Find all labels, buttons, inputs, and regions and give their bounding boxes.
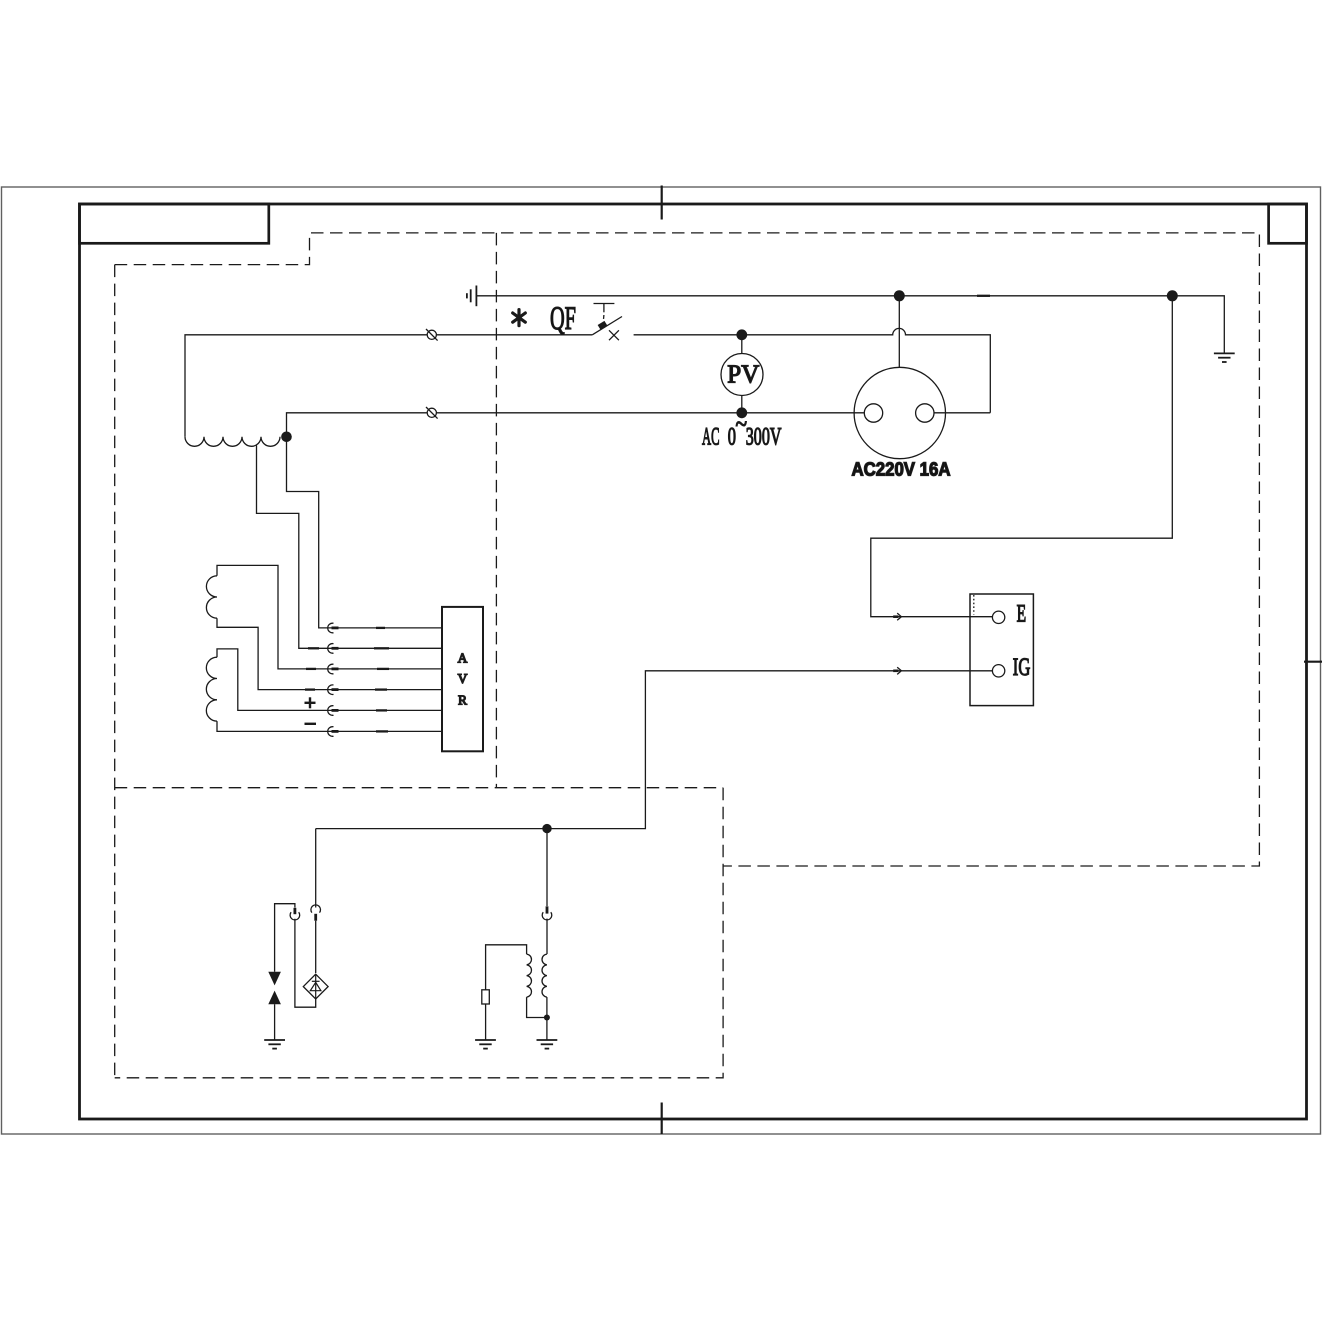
node: earth bus / socket earth pin junction xyxy=(894,290,905,301)
socket right pin xyxy=(916,404,934,422)
wire: junction down to ignition connector xyxy=(546,829,548,906)
IG wire arrow xyxy=(897,667,901,674)
E wire plug mark xyxy=(893,615,898,618)
socket AC220V 16A xyxy=(854,367,945,458)
wire: PV bottom lead xyxy=(741,396,743,413)
ignition coil secondary (left, 4 loops) xyxy=(527,954,532,997)
wire: stator tap to AVR pin2 xyxy=(257,446,443,649)
node: coil common junction xyxy=(544,1015,550,1021)
connector bullet on row 2 xyxy=(426,329,438,341)
label - polarity xyxy=(305,723,317,725)
wire colour mark on earth bus xyxy=(977,295,990,297)
wire: secondary bottom to common xyxy=(527,997,547,1017)
svg-text:R: R xyxy=(458,693,467,708)
wire: connector to diode diamond xyxy=(315,921,317,973)
wire: connector to primary coil xyxy=(546,919,548,955)
wire: row 2 right of breaker with hop over earth pin xyxy=(634,328,991,412)
AVR pin plugs xyxy=(332,628,339,732)
wire: PV top lead xyxy=(741,335,743,354)
wire: primary bottom to ground xyxy=(546,997,548,1039)
wire: IG terminal to engine circuit xyxy=(316,671,993,829)
connector bullet on row 3 xyxy=(426,407,438,419)
E wire arrow xyxy=(897,613,901,620)
charge winding (3 loops) xyxy=(206,657,217,721)
svg-text:QF: QF xyxy=(550,301,576,337)
regulator AVR box xyxy=(442,607,483,751)
dashed generator enclosure left edge xyxy=(114,265,116,1078)
wire: excitation bottom to AVR pin4 xyxy=(217,618,442,689)
key switch terminal block E/IG xyxy=(970,594,1033,706)
ground G4 ignition coil xyxy=(537,1040,558,1049)
wire: earth bus (row 1) xyxy=(476,296,1224,354)
svg-text:V: V xyxy=(458,671,468,686)
right centering tick xyxy=(1304,661,1322,663)
ground G3 spark plug xyxy=(475,1040,496,1049)
voltmeter PV xyxy=(721,354,763,396)
diode rectifier diamond xyxy=(303,974,328,999)
dashed separator stator/control xyxy=(495,233,497,788)
breaker QF moving contact square xyxy=(598,321,608,330)
wire: charge winding bottom to AVR pin6 xyxy=(217,721,442,731)
wire: stator right end to AVR pin1 xyxy=(287,437,443,628)
excitation winding (2 loops) xyxy=(206,576,217,618)
wire: excitation top to AVR pin3 xyxy=(217,565,442,669)
star mark xyxy=(513,310,526,326)
node: engine feed junction xyxy=(542,824,551,833)
IG wire plug mark xyxy=(893,669,898,672)
socket earth pin lead xyxy=(898,296,900,368)
wire: diamond bottom loop to zener branch xyxy=(295,919,316,1007)
dashed generator enclosure xyxy=(115,233,1260,866)
terminal E circle xyxy=(992,611,1004,623)
chassis ground on neutral wire xyxy=(467,286,477,307)
breaker QF blade xyxy=(592,317,622,335)
title stamp box top-right xyxy=(1269,204,1307,243)
inner heavy drawing border xyxy=(80,204,1307,1119)
breaker QF contact cross xyxy=(609,330,619,340)
connector: ignition coil plug pin xyxy=(546,906,549,913)
wire: secondary top to spark plug xyxy=(486,945,527,990)
bottom centering tick xyxy=(661,1103,663,1135)
node: stator output junction xyxy=(281,432,292,443)
connector: zener branch socket xyxy=(290,912,300,920)
svg-text:AC220V 16A: AC220V 16A xyxy=(852,460,951,481)
connector: zener branch plug pin xyxy=(293,908,296,914)
ignition coil primary (right, 4 loops) xyxy=(542,954,547,997)
wire: socket right pin to row 2 xyxy=(934,412,990,414)
diode symbol inside diamond xyxy=(310,974,321,999)
connector: charge diode plug pin xyxy=(314,914,317,921)
wire: output wire (row 3) xyxy=(287,413,865,437)
connector: ignition coil socket xyxy=(542,912,552,920)
title stamp box top-left xyxy=(80,204,269,243)
connector: charge diode socket xyxy=(311,905,321,913)
wire: zener to ground xyxy=(274,1004,276,1039)
ground G5 zener xyxy=(264,1040,285,1049)
wire: line wire (row 2) left of breaker xyxy=(185,335,592,437)
spark plug resistor xyxy=(482,990,490,1004)
svg-text:AC: AC xyxy=(702,424,720,451)
svg-text:IG: IG xyxy=(1013,654,1031,681)
svg-text:A: A xyxy=(458,651,468,666)
wire: E terminal to earth bus xyxy=(871,296,1173,617)
zener bidirectional D1 xyxy=(268,972,281,1004)
AVR pin connectors (sockets) xyxy=(328,623,334,736)
svg-text:PV: PV xyxy=(727,360,759,389)
wire colour marks on AVR leads xyxy=(305,628,389,732)
top centering tick xyxy=(661,186,663,220)
node: row2 / PV top junction xyxy=(736,329,747,340)
main stator winding xyxy=(185,437,280,447)
label + polarity xyxy=(305,697,316,708)
dashed engine enclosure xyxy=(115,788,723,1078)
wire: zener branch top jog xyxy=(275,904,295,972)
dotted corner detail xyxy=(973,595,975,615)
svg-text:300V: 300V xyxy=(746,424,782,451)
ground G2 right earth xyxy=(1214,353,1235,362)
wire: main feed down to diode connector xyxy=(315,829,317,908)
svg-text:E: E xyxy=(1017,601,1027,628)
socket left pin xyxy=(864,404,882,422)
wire: charge winding top to AVR pin5 xyxy=(217,649,442,711)
wire: resistor to ground xyxy=(485,1004,487,1040)
terminal IG circle xyxy=(992,665,1004,677)
node: row3 / PV bottom junction xyxy=(736,407,747,418)
node: earth bus / E-terminal junction xyxy=(1167,290,1178,301)
breaker QF trip linkage xyxy=(594,304,615,323)
outer thin page border xyxy=(2,187,1321,1134)
